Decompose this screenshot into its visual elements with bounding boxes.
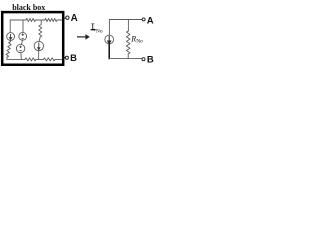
svg-text:No: No [96, 28, 103, 34]
svg-text:A: A [71, 13, 78, 24]
svg-text:B: B [147, 55, 154, 66]
svg-text:A: A [147, 15, 154, 26]
svg-text:B: B [70, 52, 77, 63]
svg-text:No: No [136, 39, 143, 45]
svg-text:black box: black box [12, 3, 45, 12]
